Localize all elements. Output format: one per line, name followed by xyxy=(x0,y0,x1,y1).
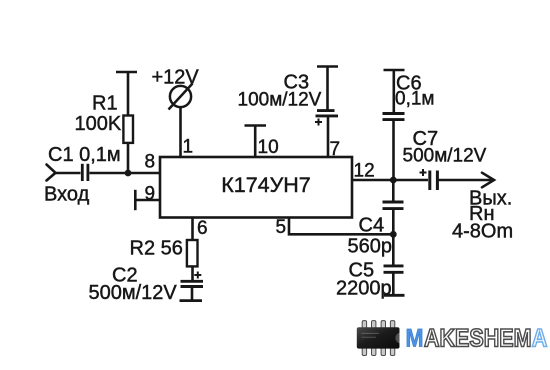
svg-text:10: 10 xyxy=(258,137,279,158)
svg-text:7: 7 xyxy=(330,139,341,160)
wire +12V to pin 1 xyxy=(179,107,182,158)
wire pin 12 to node B xyxy=(352,179,393,182)
svg-text:Вход: Вход xyxy=(44,184,90,206)
resistor R2 xyxy=(187,240,198,280)
pin 9 stub and terminal xyxy=(135,190,160,210)
svg-text:M: M xyxy=(406,326,424,353)
svg-text:К174УН7: К174УН7 xyxy=(221,173,311,197)
C3 rail terminal and wire xyxy=(317,67,338,110)
R1 top rail terminal xyxy=(116,72,137,116)
capacitor C7 xyxy=(430,171,438,191)
capacitor C1 xyxy=(82,164,88,181)
wire node A to pin 8 xyxy=(128,172,160,175)
resistor R1 xyxy=(123,116,133,174)
node B (pin12 junction) xyxy=(390,177,397,184)
svg-text:9: 9 xyxy=(145,184,156,205)
C5 common rail terminal xyxy=(384,294,405,297)
svg-text:+12V: +12V xyxy=(152,67,200,89)
svg-text:AKESHEM: AKESHEM xyxy=(424,326,532,353)
svg-text:100м/12V: 100м/12V xyxy=(238,90,322,111)
svg-text:12: 12 xyxy=(354,160,375,181)
node C (C4/C5 junction) xyxy=(390,231,397,238)
svg-text:1: 1 xyxy=(183,137,194,158)
wire node B to C7 xyxy=(393,179,428,182)
svg-text:560p: 560p xyxy=(348,235,393,257)
svg-text:6: 6 xyxy=(197,218,208,239)
capacitor C6 xyxy=(383,114,405,181)
svg-text:8: 8 xyxy=(145,152,156,173)
C3 polarity plus xyxy=(315,119,322,126)
+12V supply connector xyxy=(169,84,193,110)
pin 10 wire and rail terminal xyxy=(245,126,267,158)
pin 5 wire to node C xyxy=(289,218,393,235)
svg-text:100K: 100K xyxy=(75,113,122,135)
op-amp IC U1 К174УН7 xyxy=(160,157,352,218)
logo chip icon xyxy=(357,321,400,356)
C6 rail terminal and wire xyxy=(384,70,405,113)
svg-text:2200p: 2200p xyxy=(336,278,392,300)
wire node B down to C4 xyxy=(392,180,395,201)
capacitor C5 xyxy=(384,266,404,295)
capacitor C3 xyxy=(316,111,339,157)
svg-text:4-8Оm: 4-8Оm xyxy=(452,221,513,243)
svg-text:A: A xyxy=(532,326,548,353)
wire node C to C5 xyxy=(392,234,395,265)
logo text MAKESHEMA xyxy=(406,326,548,353)
C2 common rail terminal xyxy=(180,299,203,302)
wire C1 to node A xyxy=(90,172,129,175)
C2 polarity plus xyxy=(194,272,201,279)
svg-text:5: 5 xyxy=(276,217,287,238)
pin 6 wire xyxy=(191,218,194,241)
wire C7 to output arrow xyxy=(439,173,494,188)
svg-text:C1 0,1м: C1 0,1м xyxy=(48,144,121,166)
capacitor C4 xyxy=(383,202,404,234)
input terminal arrow (Вход) xyxy=(47,165,56,181)
svg-text:500м/12V: 500м/12V xyxy=(403,145,487,166)
svg-text:R1: R1 xyxy=(92,93,118,115)
svg-text:R2 56: R2 56 xyxy=(130,237,183,259)
svg-text:500м/12V: 500м/12V xyxy=(89,282,178,304)
svg-text:0,1м: 0,1м xyxy=(395,89,434,110)
C7 polarity plus xyxy=(420,169,427,176)
wire input to C1 xyxy=(56,172,81,175)
node A (input junction) xyxy=(125,170,132,177)
capacitor C2 xyxy=(181,281,204,300)
